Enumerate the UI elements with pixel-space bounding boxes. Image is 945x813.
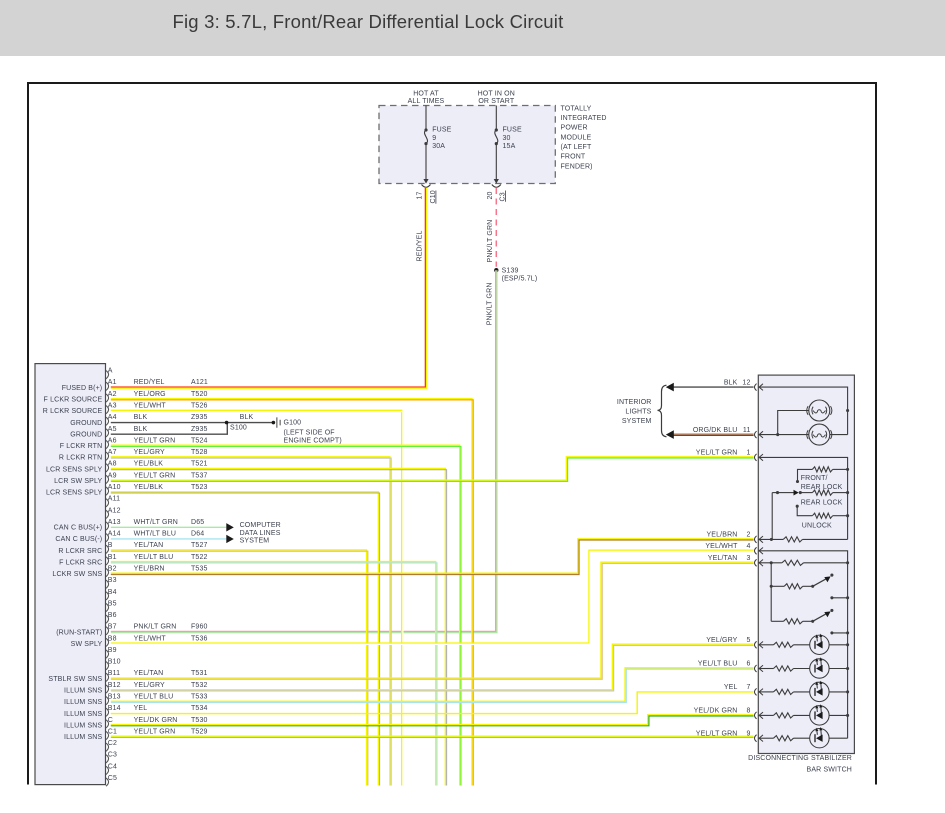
resistor FRONT/REAR LOCK — [798, 469, 813, 481]
fuse 30 15A — [495, 106, 497, 130]
connector pin B12 — [106, 685, 109, 693]
svg-text:BLK: BLK — [724, 379, 738, 386]
svg-text:FUSE: FUSE — [503, 126, 522, 133]
connector pin A3 — [106, 406, 109, 414]
svg-text:A12: A12 — [108, 507, 121, 514]
svg-text:OR START: OR START — [478, 98, 515, 105]
svg-text:F LCKR SOURCE: F LCKR SOURCE — [44, 396, 103, 403]
svg-text:9: 9 — [432, 135, 436, 142]
wire B2 YEL/BRN T535 to switch pin 2 — [111, 539, 754, 573]
svg-text:YEL/LT GRN: YEL/LT GRN — [696, 450, 738, 457]
connector pin A1 — [106, 382, 109, 390]
contact dot rear lock — [796, 505, 799, 508]
wire RED/YEL from fuse 9 to connector A1 — [111, 188, 426, 387]
disconnecting stabilizer bar switch block — [758, 375, 854, 753]
svg-text:INTEGRATED: INTEGRATED — [561, 115, 607, 122]
svg-text:REAR LOCK: REAR LOCK — [801, 499, 843, 506]
svg-text:C1: C1 — [108, 728, 117, 735]
svg-text:30A: 30A — [432, 143, 445, 150]
svg-text:A5: A5 — [108, 426, 117, 433]
svg-text:B13: B13 — [108, 694, 121, 701]
svg-text:T531: T531 — [191, 670, 208, 677]
svg-text:YEL/BLK: YEL/BLK — [134, 461, 164, 468]
wire B11 YEL/TAN T531 to switch pin 3 — [111, 562, 754, 678]
svg-text:COMPUTER: COMPUTER — [240, 522, 281, 529]
svg-text:POWER: POWER — [561, 125, 588, 132]
svg-text:UNLOCK: UNLOCK — [802, 522, 832, 529]
svg-text:C3: C3 — [108, 752, 117, 759]
connector pin C3 — [106, 755, 109, 763]
svg-text:(LEFT SIDE OF: (LEFT SIDE OF — [284, 429, 335, 436]
connector pin B14 — [106, 708, 109, 716]
svg-text:A6: A6 — [108, 437, 117, 444]
svg-text:15A: 15A — [503, 143, 516, 150]
svg-text:ILLUM SNS: ILLUM SNS — [64, 699, 102, 706]
svg-text:30: 30 — [503, 135, 511, 142]
svg-text:T535: T535 — [191, 565, 208, 572]
connector C3 arc symbol — [492, 185, 501, 188]
svg-text:T536: T536 — [191, 635, 208, 642]
wire B13 YEL/LT BLU T533 to switch pin 6 — [111, 668, 754, 701]
svg-text:B2: B2 — [108, 565, 117, 572]
switch pin 7 LED indicator — [755, 688, 757, 695]
wire B14 YEL T534 to switch pin 7 — [111, 692, 754, 714]
svg-text:YEL/DK GRN: YEL/DK GRN — [694, 708, 738, 715]
svg-text:YEL/WHT: YEL/WHT — [134, 635, 167, 642]
svg-text:D65: D65 — [191, 519, 204, 526]
svg-text:A10: A10 — [108, 484, 121, 491]
brace interior lights system — [658, 385, 667, 437]
wire A2 YEL/ORG T520 — [111, 399, 472, 786]
svg-text:GROUND: GROUND — [70, 420, 102, 427]
wire A5 BLK to splice S100 — [111, 423, 228, 435]
svg-text:G100: G100 — [284, 420, 302, 427]
svg-text:Z935: Z935 — [191, 414, 208, 421]
svg-text:CAN C BUS(+): CAN C BUS(+) — [54, 525, 103, 532]
splice S100 — [225, 421, 229, 425]
wire A7 YEL/GRY T528 — [111, 457, 390, 786]
connector pin A8 — [106, 464, 109, 472]
contact dot front/rear lock — [796, 480, 799, 483]
connector C10 arc symbol — [422, 185, 431, 188]
connector pin A4 — [106, 417, 109, 425]
svg-text:B7: B7 — [108, 624, 117, 631]
svg-text:RED/YEL: RED/YEL — [134, 379, 165, 386]
svg-text:R LCKR RTN: R LCKR RTN — [59, 455, 102, 462]
svg-text:YEL/ORG: YEL/ORG — [134, 391, 166, 398]
svg-text:YEL/LT BLU: YEL/LT BLU — [134, 554, 174, 561]
svg-text:YEL/BRN: YEL/BRN — [706, 532, 737, 539]
wire A3 YEL/WHT T526 — [111, 410, 402, 785]
svg-text:STBLR SW SNS: STBLR SW SNS — [48, 676, 102, 683]
TIPM module box (dashed) — [379, 106, 555, 184]
svg-text:A3: A3 — [108, 403, 117, 410]
svg-text:C5: C5 — [108, 775, 117, 782]
mode switch row 2 resistor — [771, 620, 783, 622]
wire B8 YEL/WHT T536 to switch pin 4 — [111, 550, 754, 643]
svg-text:BLK: BLK — [134, 414, 148, 421]
svg-text:B10: B10 — [108, 659, 121, 666]
connector pin A9 — [106, 475, 109, 483]
connector pin A10 — [106, 487, 109, 495]
lamp 1 left lead — [778, 411, 809, 435]
svg-text:FUSE: FUSE — [432, 126, 451, 133]
svg-text:B1: B1 — [108, 554, 117, 561]
svg-text:YEL/WHT: YEL/WHT — [134, 403, 167, 410]
svg-text:YEL/BRN: YEL/BRN — [134, 565, 165, 572]
connector pin B7 — [106, 627, 109, 635]
svg-text:LCR SENS SPLY: LCR SENS SPLY — [46, 466, 102, 473]
svg-text:SYSTEM: SYSTEM — [622, 418, 652, 425]
svg-text:CAN C BUS(-): CAN C BUS(-) — [55, 536, 102, 543]
wire A14 WHT/LT BLU D64 to computer data lines — [111, 538, 227, 540]
svg-text:T532: T532 — [191, 682, 208, 689]
connector pin A11 — [106, 499, 109, 507]
lamp 2 right lead — [830, 434, 848, 436]
connector pin A14 — [106, 534, 109, 542]
svg-text:T529: T529 — [191, 728, 208, 735]
svg-text:B14: B14 — [108, 705, 121, 712]
svg-text:A2: A2 — [108, 391, 117, 398]
svg-text:1: 1 — [746, 450, 750, 457]
svg-text:C4: C4 — [108, 763, 117, 770]
svg-text:D64: D64 — [191, 531, 204, 538]
resistor REAR LOCK — [833, 492, 848, 494]
svg-text:S139: S139 — [502, 267, 519, 274]
selector left vertical — [771, 493, 773, 540]
svg-text:A7: A7 — [108, 449, 117, 456]
arrow to interior lights (BLK) — [666, 383, 674, 392]
svg-text:T522: T522 — [191, 554, 208, 561]
switch pin 4 — [755, 547, 757, 554]
svg-text:Fig 3: 5.7L, Front/Rear Differ: Fig 3: 5.7L, Front/Rear Differential Loc… — [173, 11, 564, 32]
connector pin B1 — [106, 557, 109, 565]
connector pin B3 — [106, 580, 109, 588]
wire B1 YEL/LT BLU T522 — [111, 562, 436, 786]
svg-text:ILLUM SNS: ILLUM SNS — [64, 722, 102, 729]
svg-text:FRONT/: FRONT/ — [801, 475, 828, 482]
svg-text:YEL/TAN: YEL/TAN — [708, 555, 738, 562]
connector pin A12 — [106, 510, 109, 518]
svg-text:ILLUM SNS: ILLUM SNS — [64, 687, 102, 694]
svg-text:T533: T533 — [191, 694, 208, 701]
svg-text:A9: A9 — [108, 472, 117, 479]
svg-text:A14: A14 — [108, 531, 121, 538]
junction dot pin 11 wire — [776, 433, 779, 436]
connector pin B6 — [106, 615, 109, 623]
svg-text:S100: S100 — [230, 425, 247, 432]
svg-text:A1: A1 — [108, 379, 117, 386]
wire PNK/LT GRN from fuse 30 to splice S139 (dashed) — [495, 188, 497, 267]
switch pin 6 LED indicator — [755, 665, 757, 672]
connector pin B9 — [106, 650, 109, 658]
svg-text:PNK/LT GRN: PNK/LT GRN — [487, 220, 494, 263]
svg-text:DATA LINES: DATA LINES — [240, 530, 281, 537]
resistor UNLOCK — [797, 506, 812, 516]
svg-text:SW SPLY: SW SPLY — [71, 641, 103, 648]
svg-text:YEL/TAN: YEL/TAN — [134, 542, 164, 549]
computer data lines arrow A14 — [226, 535, 234, 543]
connector pin A13 — [106, 522, 109, 530]
connector pin B4 — [106, 592, 109, 600]
switch pin 1 — [755, 454, 757, 461]
svg-text:7: 7 — [746, 684, 750, 691]
left connector block (TIPM C1/C2/C3 connector) — [35, 364, 106, 785]
svg-text:A4: A4 — [108, 414, 117, 421]
svg-text:(RUN-START): (RUN-START) — [56, 629, 102, 636]
diagram frame border — [27, 82, 877, 84]
svg-text:B8: B8 — [108, 635, 117, 642]
wire A6 YEL/LT GRN T524 — [111, 445, 460, 785]
selector wiper row — [772, 492, 777, 494]
svg-text:HOT AT: HOT AT — [413, 90, 439, 97]
svg-text:A11: A11 — [108, 496, 120, 503]
svg-text:YEL/LT GRN: YEL/LT GRN — [134, 472, 176, 479]
junction dot lamp bus — [846, 409, 849, 412]
svg-text:T530: T530 — [191, 717, 208, 724]
svg-text:YEL/GRY: YEL/GRY — [706, 637, 737, 644]
wire C1 YEL/LT GRN T529 to switch pin 9 — [111, 735, 754, 737]
svg-text:YEL/BLK: YEL/BLK — [134, 484, 164, 491]
pin 4 bus wiring — [758, 551, 847, 738]
pin 2 resistor row — [758, 538, 783, 540]
svg-text:YEL: YEL — [724, 684, 738, 691]
svg-text:YEL/WHT: YEL/WHT — [705, 543, 738, 550]
svg-text:ENGINE COMPT): ENGINE COMPT) — [284, 437, 342, 444]
ground G100 symbol — [272, 421, 276, 425]
svg-text:A121: A121 — [191, 379, 208, 386]
svg-text:B11: B11 — [108, 670, 120, 677]
svg-text:REAR LOCK: REAR LOCK — [801, 484, 843, 491]
svg-text:12: 12 — [742, 379, 750, 386]
svg-text:YEL/LT GRN: YEL/LT GRN — [134, 728, 176, 735]
svg-text:T524: T524 — [191, 437, 208, 444]
connector pin B11 — [106, 673, 109, 681]
svg-text:YEL/DK GRN: YEL/DK GRN — [134, 717, 178, 724]
svg-text:ILLUM SNS: ILLUM SNS — [64, 734, 102, 741]
svg-text:ALL TIMES: ALL TIMES — [408, 98, 445, 105]
connector pin A — [106, 371, 109, 379]
svg-text:Z935: Z935 — [191, 426, 208, 433]
svg-text:RED/YEL: RED/YEL — [417, 230, 424, 261]
contact stub 1 — [830, 596, 833, 599]
svg-text:B3: B3 — [108, 577, 117, 584]
svg-text:WHT/LT BLU: WHT/LT BLU — [134, 531, 176, 538]
svg-text:SYSTEM: SYSTEM — [240, 538, 270, 545]
switch pin 2 — [755, 536, 757, 543]
selector vertical pin 3 — [770, 563, 772, 622]
svg-text:YEL: YEL — [134, 705, 148, 712]
svg-text:B6: B6 — [108, 612, 117, 619]
svg-text:T528: T528 — [191, 449, 208, 456]
svg-text:YEL/LT BLU: YEL/LT BLU — [698, 661, 738, 668]
svg-text:FENDER): FENDER) — [561, 163, 593, 170]
svg-text:17: 17 — [417, 191, 424, 199]
svg-text:T523: T523 — [191, 484, 208, 491]
svg-text:YEL/LT GRN: YEL/LT GRN — [696, 730, 738, 737]
svg-text:MODULE: MODULE — [561, 134, 592, 141]
svg-text:B12: B12 — [108, 682, 121, 689]
switch pin 12 — [755, 384, 757, 391]
svg-text:FUSED B(+): FUSED B(+) — [62, 385, 103, 392]
svg-text:B9: B9 — [108, 647, 117, 654]
connector pin A5 — [106, 429, 109, 437]
svg-text:B5: B5 — [108, 600, 117, 607]
contact stub 2 — [830, 631, 833, 634]
svg-text:B: B — [108, 542, 113, 549]
svg-text:T520: T520 — [191, 391, 208, 398]
svg-text:C: C — [108, 717, 113, 724]
svg-text:T521: T521 — [191, 461, 208, 468]
svg-text:BLK: BLK — [134, 426, 148, 433]
svg-text:T527: T527 — [191, 542, 208, 549]
connector pin C1 — [106, 731, 109, 739]
svg-text:WHT/LT GRN: WHT/LT GRN — [134, 519, 178, 526]
svg-text:LCR SW SPLY: LCR SW SPLY — [54, 478, 102, 485]
svg-text:GROUND: GROUND — [70, 431, 102, 438]
switch pin 5 LED indicator — [755, 641, 757, 648]
svg-text:B4: B4 — [108, 589, 117, 596]
wire B YEL/TAN T527 — [111, 550, 367, 786]
svg-text:ORG/DK BLU: ORG/DK BLU — [693, 427, 738, 434]
svg-text:YEL/GRY: YEL/GRY — [134, 682, 165, 689]
connector pin C5 — [106, 778, 109, 786]
wire B12 YEL/GRY T532 to switch pin 5 — [111, 644, 754, 689]
connector pin A2 — [106, 394, 109, 402]
wire BLK pin 12 to interior lights system — [673, 386, 754, 388]
svg-text:6: 6 — [746, 661, 750, 668]
mode switch row 1 resistor — [770, 585, 773, 588]
svg-text:T534: T534 — [191, 705, 208, 712]
switch pin 11 — [755, 431, 757, 438]
mode switch lever 2 — [813, 613, 828, 621]
svg-text:LIGHTS: LIGHTS — [625, 408, 651, 415]
svg-text:R LCKR SOURCE: R LCKR SOURCE — [43, 408, 103, 415]
svg-text:DISCONNECTING STABILIZER: DISCONNECTING STABILIZER — [748, 755, 852, 762]
interior lamp 2 — [809, 424, 830, 445]
svg-text:YEL/GRY: YEL/GRY — [134, 449, 165, 456]
svg-text:A8: A8 — [108, 461, 117, 468]
svg-text:2: 2 — [746, 532, 750, 539]
wire ORG/DK BLU pin 11 to interior lights system — [673, 433, 754, 435]
lamp circuit wiring pin 12 — [758, 387, 847, 435]
svg-text:LCKR SW SNS: LCKR SW SNS — [52, 571, 102, 578]
connector pin C2 — [106, 743, 109, 751]
connector pin B — [106, 545, 109, 553]
wire A8 YEL/BLK T521 — [111, 469, 446, 786]
connector pin B5 — [106, 603, 109, 611]
svg-text:FRONT: FRONT — [561, 154, 586, 161]
svg-text:PNK/LT GRN: PNK/LT GRN — [487, 282, 494, 325]
svg-text:5: 5 — [746, 637, 750, 644]
svg-text:T526: T526 — [191, 403, 208, 410]
wire PNK/LT GRN from S139 to connector B7 — [111, 270, 496, 631]
svg-text:8: 8 — [746, 708, 750, 715]
interior lamp 1 — [809, 400, 830, 421]
wire A10 YEL/BLK T523 — [111, 492, 379, 786]
svg-text:(AT LEFT: (AT LEFT — [561, 144, 592, 151]
connector pin A6 — [106, 440, 109, 448]
connector pin C4 — [106, 766, 109, 774]
svg-text:LCR SENS SPLY: LCR SENS SPLY — [46, 490, 102, 497]
svg-text:11: 11 — [743, 427, 751, 434]
svg-text:HOT IN ON: HOT IN ON — [478, 90, 515, 97]
wire A13 WHT/LT GRN D65 to computer data lines — [111, 526, 227, 528]
title bar — [0, 0, 945, 56]
connector pin C — [106, 720, 109, 728]
svg-text:F960: F960 — [191, 624, 208, 631]
wire C YEL/DK GRN T530 to switch pin 8 — [111, 715, 754, 725]
svg-text:20: 20 — [487, 191, 494, 199]
svg-text:4: 4 — [746, 543, 750, 550]
svg-text:BAR SWITCH: BAR SWITCH — [807, 766, 852, 773]
wire A4 BLK to splice S100 and ground G100 — [111, 422, 274, 424]
svg-text:YEL/LT BLU: YEL/LT BLU — [134, 694, 174, 701]
svg-text:YEL/LT GRN: YEL/LT GRN — [134, 437, 176, 444]
svg-text:INTERIOR: INTERIOR — [617, 399, 652, 406]
svg-text:BLK: BLK — [240, 414, 254, 421]
svg-text:YEL/TAN: YEL/TAN — [134, 670, 164, 677]
svg-text:3: 3 — [746, 555, 750, 562]
svg-text:C2: C2 — [108, 740, 117, 747]
switch pin 8 LED indicator — [755, 712, 757, 719]
connector pin B8 — [106, 638, 109, 646]
pin 1 bus wiring — [758, 457, 847, 539]
connector pin A7 — [106, 452, 109, 460]
svg-text:PNK/LT GRN: PNK/LT GRN — [134, 624, 177, 631]
connector pin B13 — [106, 697, 109, 705]
svg-text:A13: A13 — [108, 519, 121, 526]
fuse 9 30A — [425, 106, 427, 130]
splice S139 — [494, 268, 498, 272]
pin 3 resistor row — [758, 562, 782, 564]
svg-text:F LCKR RTN: F LCKR RTN — [60, 443, 103, 450]
switch pin 9 LED indicator — [755, 735, 757, 742]
svg-text:A: A — [108, 368, 113, 375]
svg-text:(ESP/5.7L): (ESP/5.7L) — [502, 276, 538, 283]
svg-text:T537: T537 — [191, 472, 208, 479]
arrow to interior lights (ORG/DK BLU) — [666, 430, 674, 439]
svg-text:TOTALLY: TOTALLY — [561, 105, 592, 112]
lamp circuit wiring pin 11 — [758, 434, 809, 436]
switch pin 3 — [755, 559, 757, 566]
connector pin B2 — [106, 568, 109, 576]
svg-text:9: 9 — [746, 730, 750, 737]
connector pin B10 — [106, 662, 109, 670]
mode switch lever 1 — [813, 578, 828, 586]
computer data lines arrow A13 — [226, 523, 234, 531]
wire A9 YEL/LT GRN T537 to switch pin 1 — [111, 457, 754, 480]
svg-text:ILLUM SNS: ILLUM SNS — [64, 711, 102, 718]
svg-text:R LCKR SRC: R LCKR SRC — [58, 548, 102, 555]
svg-text:F LCKR SRC: F LCKR SRC — [59, 559, 102, 566]
